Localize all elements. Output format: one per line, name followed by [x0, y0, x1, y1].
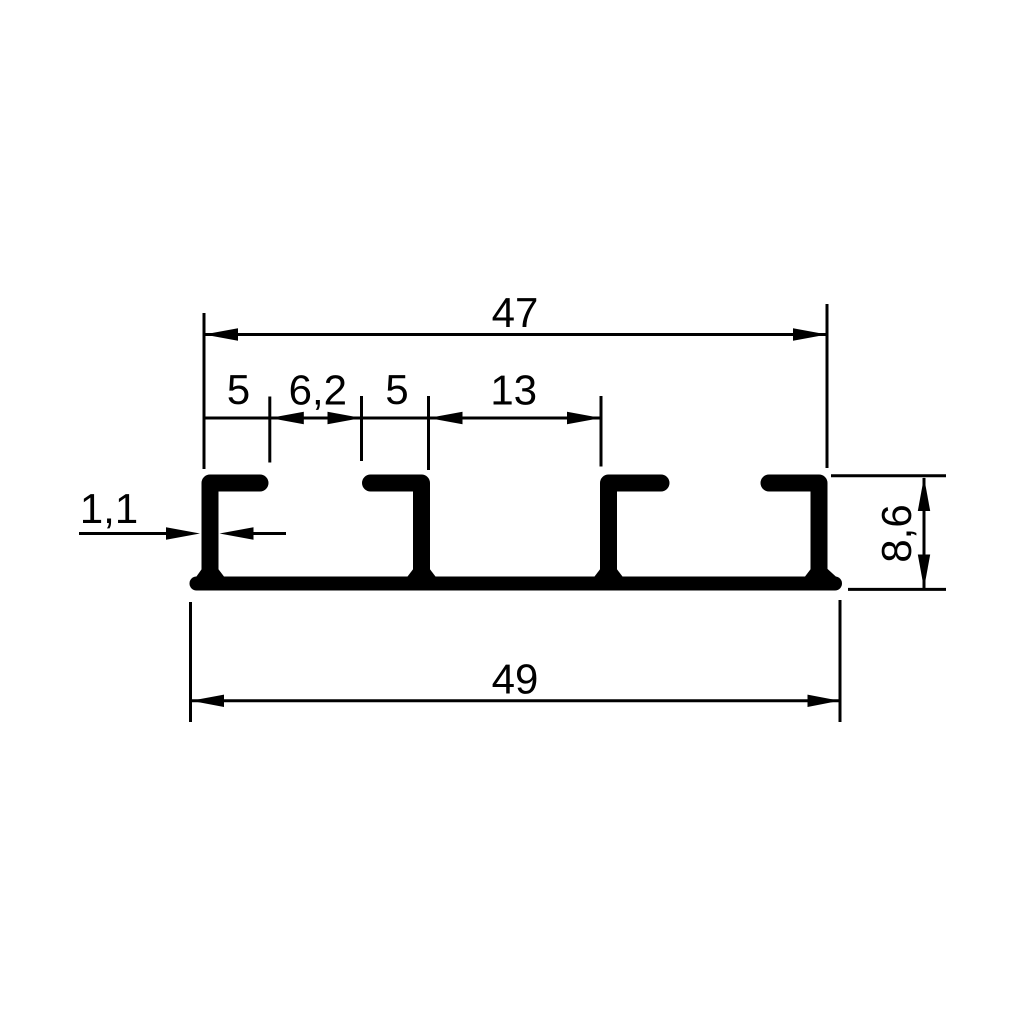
fillet wall1 right	[218, 568, 226, 579]
dim row2 tick at 362	[360, 396, 363, 461]
arrowhead 47 right	[793, 328, 827, 341]
label 49	[493, 664, 537, 694]
dim row2 dimension line	[204, 417, 601, 420]
arrowhead 13 left	[429, 412, 463, 425]
dim 8,6 bottom extension line	[848, 588, 946, 591]
dim row2 tick at 270	[268, 397, 271, 463]
arrowhead 49 left	[191, 695, 224, 707]
arrowhead 8,6 down	[918, 555, 930, 589]
arrowhead 1,1 outer left	[166, 527, 200, 540]
profile hook 4 (wall + left flange)	[769, 483, 819, 580]
dim row2 tick at 601	[600, 396, 603, 467]
dim 8,6 top extension line	[831, 474, 946, 477]
dim 49 dimension line	[191, 699, 841, 702]
label 6,2	[291, 375, 345, 410]
dim 49 right extension line	[839, 600, 842, 722]
profile hook 3 (wall + right flange)	[609, 483, 662, 580]
fillet wall1 left	[195, 568, 203, 579]
dim 47 left extension line	[203, 313, 206, 469]
fillet wall2 right	[429, 568, 437, 579]
fillet wall3 right	[616, 568, 624, 579]
arrowhead 1,1 outer right	[220, 527, 254, 540]
arrowhead 8,6 up	[918, 477, 930, 511]
label 8,6 (rotated)	[882, 506, 917, 561]
arrowhead 6,2 right	[328, 412, 362, 425]
label 5 (first)	[229, 375, 249, 404]
dim 47 right extension line	[826, 304, 829, 468]
dim 1,1 left leader line	[79, 532, 167, 535]
label 5 (second)	[387, 375, 407, 404]
label 1,1	[83, 494, 136, 528]
label 13	[494, 375, 536, 405]
profile hook 1 (wall + right flange)	[210, 483, 260, 580]
dim row2 tick at 429	[427, 396, 430, 470]
arrowhead 49 right	[808, 695, 840, 707]
fillet wall4 left	[804, 568, 812, 579]
arrowhead 6,2 left	[270, 412, 304, 425]
dim 47 dimension line	[204, 333, 827, 336]
dim 49 left extension line	[189, 602, 192, 722]
fillet wall2 left	[406, 568, 414, 579]
profile base plate	[197, 577, 836, 591]
dim 8,6 dimension line	[923, 478, 926, 588]
dim 1,1 right leader line	[253, 532, 286, 535]
fillet wall4 right	[827, 568, 839, 579]
label 47	[493, 298, 537, 327]
profile hook 2 (wall + left flange)	[371, 483, 422, 580]
arrowhead 47 left	[204, 328, 238, 341]
fillet wall3 left	[593, 568, 601, 579]
arrowhead 13 right	[567, 412, 601, 425]
